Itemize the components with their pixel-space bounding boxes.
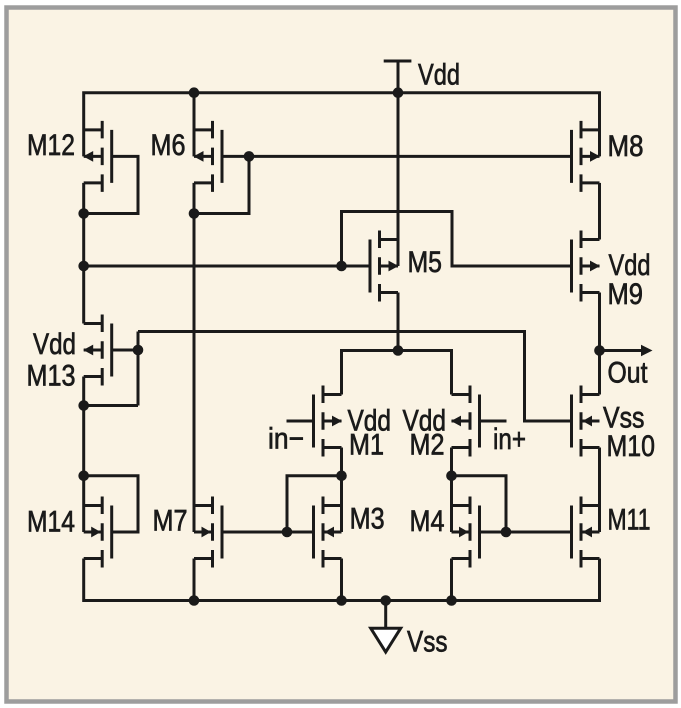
svg-text:in−: in− <box>268 423 304 456</box>
svg-text:Vdd: Vdd <box>418 59 460 92</box>
svg-text:M12: M12 <box>27 129 75 162</box>
svg-text:Vss: Vss <box>407 626 448 659</box>
svg-text:Out: Out <box>608 357 649 390</box>
svg-text:M2: M2 <box>410 429 445 462</box>
svg-text:M9: M9 <box>608 278 644 311</box>
svg-text:Vdd: Vdd <box>33 328 76 361</box>
svg-text:in+: in+ <box>493 423 526 456</box>
svg-text:M8: M8 <box>608 130 644 163</box>
svg-text:M1: M1 <box>349 429 384 462</box>
svg-text:M14: M14 <box>27 506 75 539</box>
svg-text:M5: M5 <box>408 246 443 279</box>
svg-text:M7: M7 <box>153 505 188 538</box>
svg-text:M6: M6 <box>151 129 186 162</box>
svg-text:M4: M4 <box>410 505 445 538</box>
svg-text:M11: M11 <box>608 504 651 537</box>
svg-text:M3: M3 <box>350 503 385 536</box>
svg-text:M13: M13 <box>27 360 76 393</box>
svg-text:M10: M10 <box>607 430 656 463</box>
